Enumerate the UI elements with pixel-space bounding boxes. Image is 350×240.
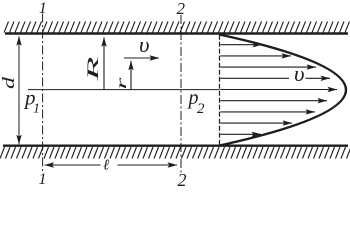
svg-text:2: 2 <box>177 0 186 18</box>
svg-text:υ: υ <box>139 32 150 57</box>
svg-text:1: 1 <box>39 0 47 17</box>
svg-text:ℓ: ℓ <box>103 158 109 174</box>
svg-text:2: 2 <box>197 101 205 117</box>
svg-text:r: r <box>114 77 129 90</box>
svg-text:1: 1 <box>33 101 40 116</box>
svg-text:2: 2 <box>178 170 187 187</box>
svg-text:υ: υ <box>294 61 305 86</box>
svg-text:d: d <box>0 76 18 89</box>
svg-text:1: 1 <box>39 171 47 187</box>
svg-text:R: R <box>85 57 102 82</box>
